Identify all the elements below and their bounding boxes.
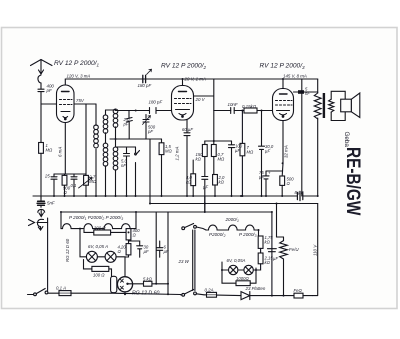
- svg-text:pF: pF: [123, 122, 129, 127]
- svg-text:1000Ω: 1000Ω: [236, 276, 249, 281]
- svg-text:6 mA: 6 mA: [58, 147, 63, 157]
- bottom rail: [111, 293, 181, 294]
- svg-text:kΩ: kΩ: [265, 260, 271, 265]
- wires lamp row right: [222, 262, 244, 270]
- bus 3: [62, 211, 272, 213]
- svg-text:300 Ω: 300 Ω: [94, 225, 106, 230]
- svg-text:pF: pF: [46, 88, 52, 93]
- capacitor 8uF (bus series): [297, 191, 302, 200]
- IF transformer 1 secondary upper coil: [103, 110, 108, 143]
- mains symbol left: [37, 219, 43, 230]
- switch mains left: [28, 289, 48, 296]
- junction dots bus1: [53, 195, 319, 213]
- capacitor 5nF anode (block): [298, 90, 304, 94]
- capacitor 0.1: [71, 174, 77, 196]
- capacitor 75uF electrolytic: [263, 171, 283, 196]
- svg-text:6V, 0,05 A: 6V, 0,05 A: [88, 244, 108, 249]
- resistor 900 ohm (cathode bias): [62, 174, 67, 196]
- resistor 500 ohm (cathode V3): [280, 176, 285, 196]
- svg-text:5nF: 5nF: [47, 201, 55, 206]
- svg-text:µF: µF: [235, 148, 240, 153]
- svg-text:20 V: 20 V: [195, 97, 206, 102]
- svg-text:25: 25: [44, 174, 50, 179]
- wire V2 top cap: [182, 79, 184, 86]
- junction dropping network: [205, 140, 214, 142]
- svg-text:µF: µF: [259, 175, 264, 180]
- svg-text:RG 12 D 60: RG 12 D 60: [65, 238, 70, 262]
- svg-text:nF: nF: [121, 163, 126, 168]
- svg-text:1,2 mA: 1,2 mA: [175, 147, 180, 161]
- svg-text:0,2A: 0,2A: [205, 288, 214, 293]
- output transformer primary: [314, 79, 321, 196]
- lamp 6V 0.05A left a: [86, 251, 97, 262]
- svg-text:µF: µF: [273, 256, 278, 261]
- wire column from bus3 down right psu: [271, 212, 273, 296]
- resistor FeU on rail: [294, 293, 313, 298]
- svg-text:145 V, 8 mA: 145 V, 8 mA: [283, 74, 307, 79]
- svg-text:RV 12 P 2000/3: RV 12 P 2000/3: [260, 63, 306, 71]
- capacitor (screen bypass): [202, 177, 208, 213]
- switch mains right top: [182, 224, 206, 231]
- resistor 1.5M (grid leak V2): [146, 139, 164, 196]
- wire column bus2 down: [276, 204, 278, 238]
- svg-text:µF: µF: [203, 185, 208, 190]
- heater filaments right chain: [206, 225, 259, 236]
- rectifier tube RG12D60: [111, 276, 133, 294]
- wire V3 anode to output transformer: [294, 91, 318, 93]
- resistor 5k (smoothing): [129, 281, 168, 286]
- svg-text:MΩ: MΩ: [46, 148, 54, 153]
- resistor 20k: [213, 175, 218, 197]
- wire grid tap to tube V1: [41, 103, 57, 105]
- bus 2: [150, 203, 318, 205]
- capacitor 30uF electrolytic: [259, 111, 265, 197]
- capacitor 400pF (antenna coupling): [38, 87, 44, 104]
- resistor 215 ohm: [253, 253, 263, 270]
- IF transformer 2 upper coil: [113, 109, 118, 139]
- resistor 4.0k: [191, 160, 196, 196]
- capacitor 180pF (grid coupling): [150, 108, 157, 114]
- capacitor 8uF right psu: [0, 0, 1, 1]
- svg-text:MΩ: MΩ: [89, 179, 97, 184]
- speaker wiring loop: [331, 91, 345, 120]
- ground bus 1: [33, 195, 318, 197]
- svg-text:0,15kΩ: 0,15kΩ: [242, 104, 257, 109]
- wire V3 top cap: [282, 79, 284, 89]
- svg-text:6V, 0,05A: 6V, 0,05A: [227, 258, 246, 263]
- tube V2 RV12P2000: [172, 86, 194, 121]
- fuse 0.1A: [48, 291, 111, 296]
- tube V3 RV12P2000: [273, 89, 294, 121]
- wire right column 110V: [313, 204, 318, 296]
- svg-text:MΩ: MΩ: [165, 149, 173, 154]
- svg-text:23 W: 23 W: [178, 259, 190, 264]
- resistor 1M (antenna leak): [39, 143, 44, 154]
- heater filaments P2000 chain: [61, 221, 136, 229]
- selenium rectifier 23 Platten: [204, 292, 294, 300]
- capacitor 6uF (left psu): [157, 241, 163, 257]
- svg-text:MΩ: MΩ: [218, 157, 226, 162]
- svg-text:FeΩ: FeΩ: [294, 288, 303, 293]
- capacitor 5nF (to earth): [37, 196, 45, 207]
- svg-text:pF: pF: [147, 129, 153, 134]
- svg-text:nF: nF: [305, 91, 310, 96]
- svg-text:µF: µF: [265, 149, 270, 154]
- wire screen column to bus3: [204, 196, 206, 212]
- svg-text:kΩ: kΩ: [186, 180, 192, 185]
- wire feed to 100uF / 1M: [214, 140, 232, 142]
- svg-text:10nF: 10nF: [228, 102, 238, 107]
- wire left psu inner column: [155, 212, 157, 284]
- svg-text:RG 12 D 60: RG 12 D 60: [132, 291, 160, 297]
- capacitor 8uF electrolytic right: [268, 249, 277, 252]
- wire bus2 left riser: [149, 139, 151, 204]
- capacitor 25nF (cathode): [51, 174, 57, 196]
- resistor 0.15k (grid stopper): [244, 108, 257, 113]
- wire V3 grid line: [214, 110, 273, 112]
- earth symbol: [38, 209, 45, 216]
- antenna: [31, 60, 53, 88]
- svg-text:Geba: Geba: [343, 132, 350, 148]
- svg-text:32 mA: 32 mA: [284, 145, 289, 158]
- capacitor 5nF + wave switch: [116, 147, 140, 196]
- resistor 0.7M (potentiometer): [79, 104, 93, 196]
- lamp 6V 0.05A left b: [105, 251, 116, 262]
- resistor 0.7M: [211, 141, 216, 175]
- resistor 1000 ohm (lamp shunt right): [222, 268, 256, 286]
- svg-text:5 kΩ: 5 kΩ: [143, 276, 153, 281]
- wire right edge of left psu: [167, 212, 169, 294]
- svg-text:20 V, 1 mA: 20 V, 1 mA: [184, 76, 206, 81]
- wire V2 anode to dropping network: [194, 79, 214, 141]
- resistor 150k (screen feed): [202, 141, 207, 176]
- IF transformer 1 top bracket: [106, 109, 116, 111]
- capacitor 2.0pF: [126, 111, 132, 140]
- wire screen feed drop: [301, 79, 303, 92]
- svg-text:0,1: 0,1: [71, 183, 77, 188]
- urdox resistor Fe/U zigzag: [277, 237, 288, 296]
- lamp 6V 0.05A right b: [244, 265, 253, 274]
- IF transformer 1 secondary lower coil: [103, 143, 108, 196]
- wire V2 grid line: [116, 110, 172, 112]
- wire V1 cathode down: [54, 123, 86, 175]
- capacitor 100uF: [229, 141, 235, 196]
- output transformer secondary: [329, 99, 334, 112]
- wires lamp row: [80, 229, 125, 277]
- wire IFT tap to grid line: [110, 138, 150, 140]
- resistor 4.2 ohm: [125, 244, 131, 257]
- wire antenna column down: [40, 104, 42, 199]
- svg-text:Fe/U: Fe/U: [289, 247, 299, 252]
- heater chain feed left: [60, 212, 62, 229]
- svg-text:180 pF: 180 pF: [138, 83, 152, 88]
- capacitor 30uF electrolytic (left psu): [129, 241, 143, 257]
- svg-text:µF: µF: [144, 249, 149, 254]
- wire mains left down: [47, 218, 49, 291]
- svg-text:180 pF: 180 pF: [149, 99, 163, 104]
- svg-text:100 Ω: 100 Ω: [93, 272, 105, 277]
- svg-text:MΩ: MΩ: [247, 150, 255, 155]
- IF transformer 2 lower coil: [113, 139, 118, 196]
- wire V3 cathode: [281, 121, 284, 177]
- svg-text:RV 12 P 2000/2: RV 12 P 2000/2: [161, 63, 207, 71]
- svg-text:110 V: 110 V: [312, 244, 317, 256]
- capacitor 60uF (V2 cathode): [184, 120, 190, 196]
- resistor 1.75k (series): [258, 236, 263, 253]
- svg-text:60 µF: 60 µF: [182, 127, 193, 132]
- resistor 7M: [240, 111, 245, 197]
- resistor 300 ohm (heater series): [84, 230, 126, 236]
- output transformer core: [323, 93, 325, 118]
- anode supply rail: [65, 78, 317, 80]
- svg-text:0,1 A: 0,1 A: [56, 285, 66, 290]
- fuse 0.2A: [207, 292, 217, 297]
- speaker: [341, 93, 360, 118]
- svg-text:RV 12 P 2000/1: RV 12 P 2000/1: [54, 60, 100, 68]
- trimmer capacitor 500pF: [143, 115, 151, 140]
- svg-text:120 V, 3 mA: 120 V, 3 mA: [67, 74, 91, 79]
- capacitor 10nF: [231, 108, 235, 114]
- tube V1 RV12P2000: [57, 85, 75, 123]
- trimmer capacitor 180pF (anode rail): [143, 69, 152, 83]
- svg-text:75V: 75V: [76, 98, 85, 103]
- svg-text:kΩ: kΩ: [196, 157, 202, 162]
- svg-text:kΩ: kΩ: [219, 180, 225, 185]
- lamp 6V 0.05A right a: [229, 265, 238, 274]
- IF transformer 1 primary coil: [94, 104, 99, 196]
- junction dots bottom: [60, 211, 285, 297]
- resistor 400 ohm: [126, 229, 131, 244]
- mains cord double line: [193, 230, 195, 291]
- wire heater top tap to bus3: [135, 212, 137, 221]
- svg-text:kΩ: kΩ: [265, 240, 271, 245]
- svg-text:µF: µF: [164, 249, 169, 254]
- resistor 100 ohm (lamp shunt): [84, 260, 112, 277]
- svg-text:+: +: [268, 171, 271, 176]
- wire V1 screen 75V: [74, 103, 96, 105]
- wire V1 top cap to anode rail: [64, 79, 66, 85]
- svg-text:8 µF: 8 µF: [295, 190, 304, 195]
- svg-text:23 Platten: 23 Platten: [245, 286, 266, 291]
- switch mains right bottom: [181, 290, 205, 297]
- svg-text:RE-B/GW: RE-B/GW: [342, 147, 364, 216]
